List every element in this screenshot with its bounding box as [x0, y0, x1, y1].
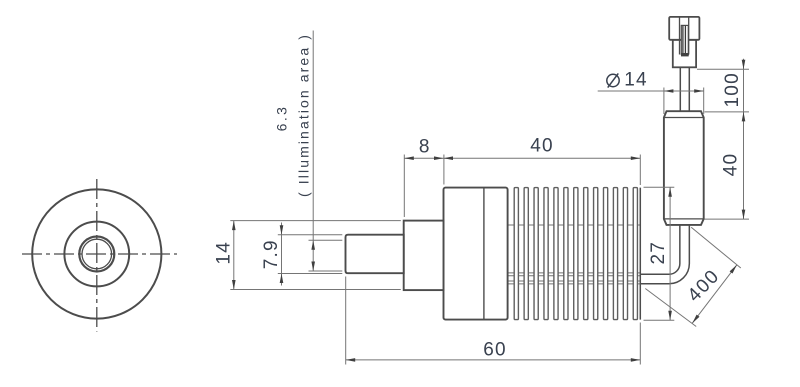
svg-text:60: 60: [483, 340, 507, 361]
svg-text:27: 27: [648, 241, 669, 265]
svg-text:6.3: 6.3: [273, 105, 289, 132]
svg-text:100: 100: [722, 72, 743, 107]
svg-text:8: 8: [419, 137, 431, 158]
svg-text:14: 14: [624, 70, 648, 91]
svg-text:( Illumination area ): ( Illumination area ): [296, 33, 312, 197]
svg-text:40: 40: [720, 153, 741, 177]
svg-text:14: 14: [213, 241, 234, 265]
svg-text:40: 40: [530, 136, 554, 157]
svg-text:7.9: 7.9: [261, 239, 282, 269]
